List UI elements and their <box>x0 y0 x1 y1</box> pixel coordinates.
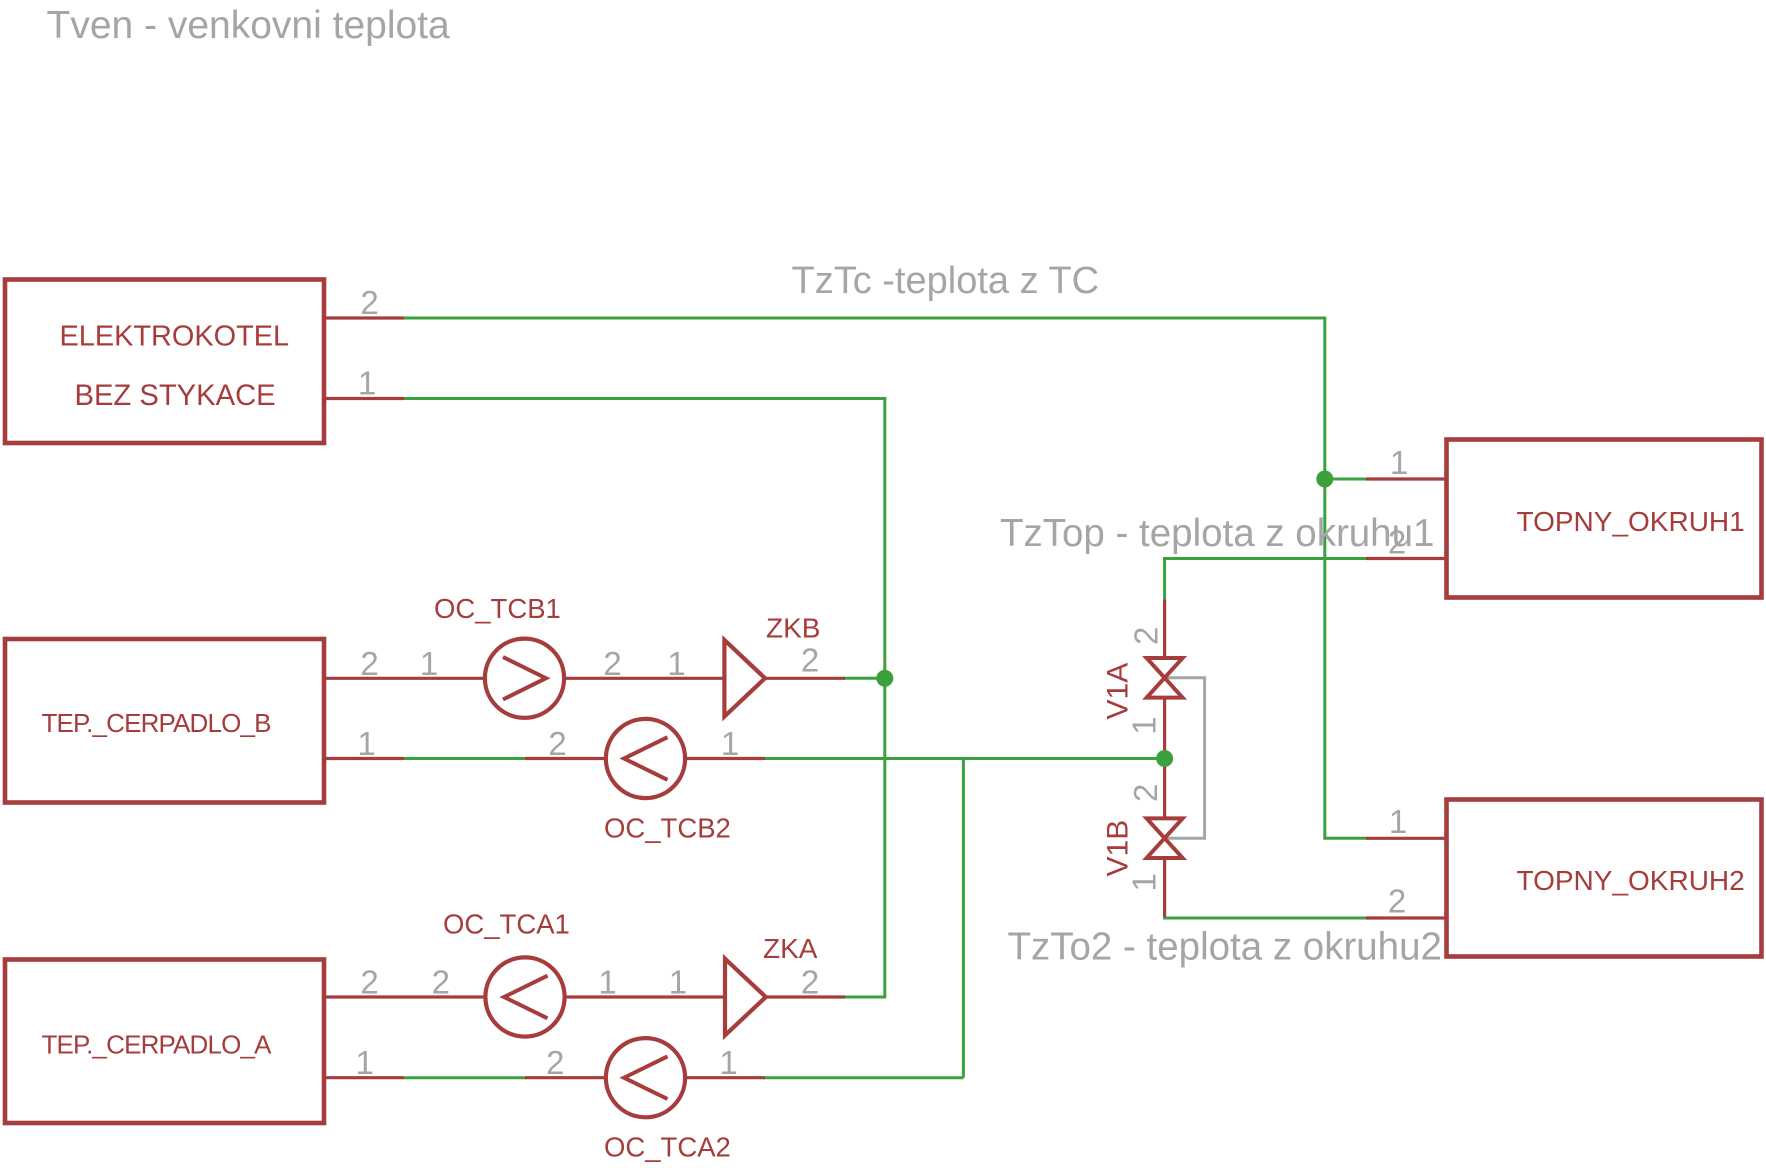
svg-text:OC_TCB2: OC_TCB2 <box>604 813 731 844</box>
svg-text:BEZ STYKACE: BEZ STYKACE <box>75 380 276 412</box>
svg-text:1: 1 <box>598 964 616 1001</box>
svg-text:TOPNY_OKRUH1: TOPNY_OKRUH1 <box>1517 506 1745 537</box>
svg-text:2: 2 <box>432 964 450 1001</box>
svg-text:2: 2 <box>360 645 378 682</box>
svg-text:1: 1 <box>721 725 739 762</box>
svg-text:OC_TCA2: OC_TCA2 <box>604 1132 731 1163</box>
svg-text:1: 1 <box>356 1044 374 1081</box>
svg-text:2: 2 <box>546 1044 564 1081</box>
svg-text:2: 2 <box>603 645 621 682</box>
svg-text:1: 1 <box>420 645 438 682</box>
svg-text:1: 1 <box>669 964 687 1001</box>
svg-text:ZKB: ZKB <box>766 613 820 644</box>
svg-text:TzTo2 - teplota z okruhu2: TzTo2 - teplota z okruhu2 <box>1008 925 1442 968</box>
svg-text:1: 1 <box>358 365 376 402</box>
svg-text:2: 2 <box>801 964 819 1001</box>
svg-text:V1A: V1A <box>1102 663 1135 720</box>
svg-text:TzTc -teplota z TC: TzTc -teplota z TC <box>792 260 1100 302</box>
svg-text:2: 2 <box>801 641 819 678</box>
svg-text:2: 2 <box>360 284 378 321</box>
svg-text:2: 2 <box>1388 883 1406 920</box>
svg-text:OC_TCA1: OC_TCA1 <box>443 909 570 940</box>
svg-text:1: 1 <box>667 645 685 682</box>
svg-text:2: 2 <box>1127 784 1164 802</box>
svg-text:1: 1 <box>1390 444 1408 481</box>
svg-text:OC_TCB1: OC_TCB1 <box>434 593 561 624</box>
svg-text:ZKA: ZKA <box>763 933 818 964</box>
svg-text:2: 2 <box>1128 627 1165 645</box>
svg-text:1: 1 <box>357 725 375 762</box>
svg-text:2: 2 <box>548 725 566 762</box>
svg-text:2: 2 <box>1388 524 1406 561</box>
svg-text:TzTop - teplota z okruhu1: TzTop - teplota z okruhu1 <box>1000 512 1434 555</box>
svg-text:TEP._CERPADLO_A: TEP._CERPADLO_A <box>42 1030 273 1060</box>
svg-text:Tven - venkovni teplota: Tven - venkovni teplota <box>47 4 451 47</box>
svg-text:1: 1 <box>719 1044 737 1081</box>
svg-text:V1B: V1B <box>1102 820 1135 877</box>
svg-text:1: 1 <box>1389 803 1407 840</box>
svg-text:TOPNY_OKRUH2: TOPNY_OKRUH2 <box>1517 865 1745 896</box>
svg-text:TEP._CERPADLO_B: TEP._CERPADLO_B <box>42 708 271 738</box>
svg-text:ELEKTROKOTEL: ELEKTROKOTEL <box>60 321 290 353</box>
svg-text:2: 2 <box>360 964 378 1001</box>
